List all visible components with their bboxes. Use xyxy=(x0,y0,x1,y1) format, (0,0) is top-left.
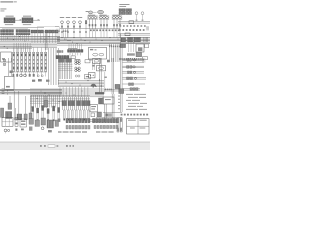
harness wire right 3 xyxy=(57,40,150,42)
vertical wires center-right xyxy=(99,58,102,94)
gauge bulb group label 2 xyxy=(100,14,107,17)
lower harness wire left 3 xyxy=(0,91,62,93)
connector block CB1 label xyxy=(6,15,14,18)
junction dots left mid xyxy=(4,46,8,49)
detail cluster e xyxy=(55,120,59,126)
wire right mid 2 xyxy=(118,34,150,36)
left block 1 xyxy=(1,108,4,117)
gauge bulb group 1 xyxy=(88,16,97,28)
junction dots harness xyxy=(7,36,135,43)
connector tick g xyxy=(32,80,35,82)
long vertical wires center-left xyxy=(49,48,59,85)
right small box xyxy=(129,21,134,24)
wire drops gauges to harness xyxy=(62,29,120,38)
drops below fuse band xyxy=(70,52,80,55)
toolbar page field xyxy=(48,145,55,147)
wire label row right upper xyxy=(120,25,146,27)
small box right of fuse band xyxy=(71,56,75,59)
front turn signal lamp FL xyxy=(135,12,138,21)
note text line 2 xyxy=(0,10,4,13)
text under CB2 xyxy=(23,23,31,26)
vertical wires bottom right xyxy=(104,94,114,122)
wire bottom right 2 xyxy=(96,117,122,119)
component tick d xyxy=(33,74,35,77)
battery box xyxy=(1,52,12,62)
connector band row 1 left xyxy=(1,30,31,32)
fuse band 2 xyxy=(56,56,69,59)
connector block CB2 label xyxy=(23,15,31,18)
toolbar button 3 xyxy=(66,145,68,147)
dark blob right vertical base xyxy=(119,89,124,94)
junction box fuse oval 2 xyxy=(99,53,104,56)
connector pigtail comb left xyxy=(32,106,60,122)
starter motor box xyxy=(5,76,15,89)
harness wire left lower 1 xyxy=(0,42,57,44)
harness wire left 3 xyxy=(0,39,60,41)
detail cluster d xyxy=(47,120,54,128)
fuse band label xyxy=(68,47,77,50)
lower crosshatch wire 1 xyxy=(30,97,90,99)
wires to coil bank xyxy=(14,48,46,53)
lower harness wire left 1 xyxy=(0,88,62,90)
legend left ticks xyxy=(118,96,120,110)
connector band row center xyxy=(62,101,90,106)
left block 5 xyxy=(29,96,32,119)
wire color ticks on drops xyxy=(61,31,86,33)
harness wire left 4 xyxy=(0,40,60,42)
lower harness wire center 5 xyxy=(30,96,104,98)
bottom legend text a xyxy=(58,131,87,132)
wire under starter xyxy=(0,89,14,91)
right strip end box xyxy=(143,57,148,60)
dark box lower right-center xyxy=(115,84,120,88)
relay R2 xyxy=(97,66,106,71)
vertical wire pair x45 xyxy=(45,33,47,50)
wire drops left band xyxy=(2,35,29,41)
gauge bulb group 3 xyxy=(113,16,122,28)
connector block CB2 xyxy=(22,18,33,23)
connector pigtail comb center xyxy=(63,110,89,120)
lower crosshatch dots xyxy=(37,98,60,102)
toolbar text xyxy=(57,145,59,146)
wire drops center band xyxy=(32,33,55,43)
wire tick under L2 xyxy=(67,26,69,28)
junction dots lower center xyxy=(41,91,83,96)
fuse holder 2 xyxy=(97,112,102,117)
tachometer symbol xyxy=(93,10,104,14)
front turn signal lamp FR xyxy=(141,12,144,21)
gauge bracket 2 xyxy=(99,16,109,20)
wire label row right lower xyxy=(119,29,145,31)
rear lamp group 6 xyxy=(123,88,141,91)
tick row under gauge bus xyxy=(90,29,120,31)
regulator connector xyxy=(99,98,104,104)
component tick a xyxy=(13,74,15,77)
toolbar button 2 xyxy=(44,145,46,147)
lower crosshatch wire 2 xyxy=(30,99,90,101)
toolbar background xyxy=(0,142,150,150)
lower right stub 2 xyxy=(104,90,121,92)
component tick c xyxy=(29,74,31,77)
lower crosshatch wire 4 xyxy=(30,102,60,104)
detail cluster b xyxy=(35,120,40,126)
harness wire left 2 xyxy=(0,37,60,39)
thick harness segment xyxy=(95,92,104,94)
connector strip right xyxy=(119,58,141,60)
junction box xyxy=(89,47,107,59)
lower crosshatch wire 0 xyxy=(30,95,90,97)
spark plug symbol 1 xyxy=(20,74,23,77)
center block B xyxy=(66,59,72,63)
right small box 2 xyxy=(145,44,149,48)
bottom connector row 1b xyxy=(93,119,119,123)
bottom legend text b xyxy=(96,131,114,132)
toolbar button 1 xyxy=(40,145,42,147)
sensor symbol 1 xyxy=(3,59,6,62)
text under CB1 xyxy=(5,23,13,26)
ignition coil bank xyxy=(13,52,47,71)
lower right ticks xyxy=(105,89,112,91)
title text xyxy=(0,1,16,2)
starter relay ticks xyxy=(105,113,112,116)
mid bundle wire 5 xyxy=(58,86,104,88)
detail cluster a2 xyxy=(29,127,32,131)
battery terminal marks xyxy=(2,58,5,59)
toolbar button 4 xyxy=(70,145,71,147)
gauge bulb group label 1 xyxy=(88,14,95,17)
indicator lamp L4 label xyxy=(78,16,82,19)
gauge wire labels 1 xyxy=(89,24,97,26)
wire from CB2 xyxy=(33,19,40,20)
detail circle c xyxy=(41,127,44,130)
mid bundle wire 4 xyxy=(58,84,104,86)
junction dots lower left xyxy=(7,90,8,94)
harness wire left 1 xyxy=(0,36,60,38)
left tick block xyxy=(10,71,13,74)
rear lamp group 2 xyxy=(123,66,145,69)
detail cluster a xyxy=(29,119,34,125)
lower harness wire center 4 xyxy=(30,94,104,96)
wire from CB1 xyxy=(15,19,22,20)
left vertical wire 2 xyxy=(11,58,13,76)
center block A xyxy=(59,59,65,63)
headlight connector block xyxy=(119,9,132,15)
info table text xyxy=(128,120,147,129)
left block 4 xyxy=(24,96,27,120)
connector tick i xyxy=(46,80,49,82)
legend note line 3 xyxy=(126,99,140,102)
long vertical wire pair right xyxy=(121,34,123,112)
wire left mid 1 xyxy=(0,45,32,47)
short verticals near x57-67 xyxy=(56,29,68,38)
ignition switch lower xyxy=(8,96,12,109)
narrow vertical comp 1 xyxy=(117,118,119,132)
wire drops lower center xyxy=(63,97,89,110)
connector pins right edge xyxy=(146,26,148,30)
gauge bracket 1 xyxy=(88,16,98,20)
connector band row 2 left xyxy=(1,33,31,35)
switch pins xyxy=(144,37,148,42)
vertical marks right of clusters xyxy=(92,62,95,70)
rear lamp group 3 xyxy=(123,71,145,74)
detail mark left of rows xyxy=(58,119,61,122)
wire right top 1 xyxy=(118,21,150,23)
lower harness wire center 3 xyxy=(30,92,104,94)
detail cluster d2 xyxy=(48,130,52,132)
gauge bracket 3 xyxy=(112,16,122,20)
narrow vertical comp 2 xyxy=(120,118,122,132)
indicator lamp L1 label xyxy=(60,16,64,19)
gauge bulb group 2 xyxy=(100,16,109,28)
wire tick under L3 xyxy=(73,26,75,28)
harness wire right 5 xyxy=(57,43,150,45)
junction box fuse oval 1 xyxy=(93,53,98,56)
detail comp 2 xyxy=(15,118,18,127)
wire color code row xyxy=(121,114,148,116)
wire tick under L4 xyxy=(79,26,81,28)
battery box lower xyxy=(90,105,98,112)
connector band center xyxy=(31,30,58,33)
info table xyxy=(127,119,150,135)
small connector row xyxy=(57,51,63,53)
wire left mid 2 xyxy=(0,47,32,49)
indicator lamp L1 xyxy=(61,21,64,29)
mid bundle drops xyxy=(60,87,88,97)
mid bundle junctions xyxy=(66,80,97,87)
vertical wire x104.8 xyxy=(104,72,107,94)
left block 3 xyxy=(17,91,22,120)
harness wire right extra xyxy=(57,44,112,46)
text above band xyxy=(2,28,28,31)
wire stub left of lamps xyxy=(55,26,59,28)
harness wire right 4 xyxy=(57,41,150,43)
indicator lamp L2 xyxy=(67,21,70,29)
lower harness wire left 4 xyxy=(0,93,62,95)
vertical wires x112 xyxy=(112,58,114,94)
component tick b xyxy=(16,74,18,77)
gauge wire labels 2 xyxy=(100,24,108,26)
indicator lamp L4 xyxy=(79,21,82,29)
legend note line 4 xyxy=(128,102,147,105)
flasher relay xyxy=(89,73,96,78)
toolbar top border xyxy=(0,141,150,143)
wires below coil bank xyxy=(14,72,46,77)
lower harness wire center 1 xyxy=(30,88,104,90)
small circle f xyxy=(41,75,43,77)
harness wire left lower 4 xyxy=(0,47,57,49)
detail comp 2 mark xyxy=(15,129,17,131)
wire bottom right 3 xyxy=(90,120,101,121)
spark plug symbol 2 xyxy=(24,74,27,77)
wire color labels lower left xyxy=(2,89,5,94)
rear lamp group 4 xyxy=(123,77,147,80)
rear lamp group 1 xyxy=(123,59,145,63)
bottom connector row 2b xyxy=(94,125,118,128)
starter motor marks xyxy=(6,86,10,88)
horn detail symbol xyxy=(4,129,10,133)
horn xyxy=(91,84,96,88)
mid bundle wire 1 xyxy=(58,80,104,82)
relay ticks xyxy=(107,60,110,63)
detail cluster c xyxy=(41,118,46,125)
lower harness wire center 2 xyxy=(30,90,104,92)
gauge bulb group label 3 xyxy=(113,14,120,17)
center cross wires xyxy=(58,64,73,70)
ignition switch inner xyxy=(138,47,142,51)
indicator lamp L2 label xyxy=(66,16,70,19)
small box near clusters xyxy=(85,60,90,63)
legend note line 6 xyxy=(126,108,147,111)
wire tick under L1 xyxy=(61,26,63,28)
wire drops right of junction box xyxy=(110,44,120,62)
mid bundle wire 3 xyxy=(58,83,104,85)
right mid small box xyxy=(125,33,130,36)
left vertical wire 1 xyxy=(8,58,10,76)
detail comp 3 mark xyxy=(21,129,24,131)
detail comp 3 xyxy=(20,119,27,127)
wire right mid 1 xyxy=(118,33,150,35)
note text line 1 xyxy=(0,8,6,11)
alternator cluster 2 xyxy=(75,67,81,72)
lower harness wire left 2 xyxy=(0,90,62,92)
mid bundle wire 2 xyxy=(58,81,104,83)
harness wire right 1 xyxy=(57,37,150,39)
frame box center top xyxy=(38,27,60,32)
rear lamp group 5 xyxy=(123,83,146,86)
legend note line 5 xyxy=(128,105,143,108)
relay R1 xyxy=(89,59,101,64)
center vertical wires xyxy=(59,62,71,79)
wire gauge bus xyxy=(60,28,120,30)
legend note line 1 xyxy=(126,93,146,96)
right cluster block D xyxy=(120,44,126,48)
lower right stub 1 xyxy=(104,89,121,91)
speedometer symbol xyxy=(86,11,93,14)
left block 2 xyxy=(6,112,12,119)
small circle e xyxy=(37,75,39,77)
wire drops into coil area xyxy=(14,43,30,52)
indicator lamp L3 label xyxy=(72,16,76,19)
right mid ticks xyxy=(127,53,135,55)
lower crosshatch wire 3 xyxy=(30,101,62,103)
fuse holder 1 xyxy=(91,113,95,117)
harness wire right 2 xyxy=(57,38,150,40)
harness wire left lower 2 xyxy=(0,44,57,46)
indicator lamp L3 xyxy=(73,21,76,29)
headlight text xyxy=(119,4,129,7)
connector block CB1 xyxy=(4,18,15,23)
oil switch box xyxy=(85,75,91,79)
wire under coil bank xyxy=(12,71,47,73)
ignition switch box xyxy=(136,44,144,52)
drops from switch blocks xyxy=(129,42,134,52)
wire ticks right of junction box xyxy=(109,46,120,48)
switch block C xyxy=(134,37,140,42)
wire right top 2 xyxy=(118,22,150,24)
connector tick h xyxy=(38,79,42,81)
sensor pair xyxy=(75,75,80,77)
left vertical comp 1 xyxy=(14,91,15,120)
wire drops lower center-left xyxy=(32,95,60,108)
fuse bar near lamps xyxy=(85,21,87,29)
bottom connector row 1a xyxy=(66,119,90,123)
alternator cluster 1 xyxy=(75,59,81,65)
sensor symbol 2 xyxy=(3,63,6,66)
extra harness dots xyxy=(62,37,86,44)
regulator box xyxy=(103,97,114,104)
wire bottom right 1 xyxy=(103,112,122,114)
sidestand switch xyxy=(44,96,48,108)
legend note line 2 xyxy=(128,96,146,99)
wire main left horizontal xyxy=(0,27,44,29)
gauge wire labels 3 xyxy=(113,24,121,26)
drops to fuse band xyxy=(69,44,82,50)
toolbar button 5 xyxy=(73,145,74,147)
switch block A xyxy=(121,38,126,42)
harness wire left lower 3 xyxy=(0,45,57,47)
rear lamp pigtails 1 xyxy=(143,58,145,63)
fuse band 1 xyxy=(68,50,84,53)
bottom connector row 2a xyxy=(66,125,90,129)
junction box inner marks xyxy=(90,49,97,50)
detail table left xyxy=(2,118,13,127)
switch block B xyxy=(128,37,134,42)
right dark box xyxy=(136,53,142,57)
